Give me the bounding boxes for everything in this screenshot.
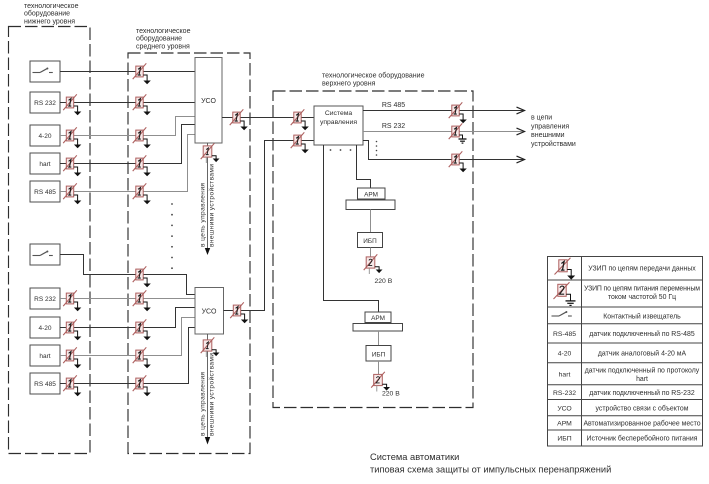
svg-text:устройствами: устройствами [531, 140, 576, 148]
legend symbol: contact detector [552, 311, 572, 316]
device box: control system (Система управления) [314, 106, 363, 145]
svg-text:в цепи: в цепи [531, 115, 552, 122]
svg-text:АРМ: АРМ [364, 191, 378, 198]
svg-text:hart: hart [39, 353, 50, 360]
svg-text:RS 232: RS 232 [382, 123, 405, 130]
wire: 4-20 B6 elbow up to USO2 [60, 308, 195, 328]
svg-text:датчик подключенный по протоко: датчик подключенный по протоколу [585, 366, 700, 374]
wire: USO1 output to control system input 1 [222, 117, 314, 119]
device box: sensor RS 232 (B1) [30, 92, 60, 113]
svg-text:управления: управления [531, 124, 569, 131]
svg-text:УЗИП по цепям питания переменн: УЗИП по цепям питания переменным [584, 285, 700, 292]
surge protector (УЗИП 1) at sensor output, row 5 group 2 [63, 375, 81, 396]
svg-text:RS 232: RS 232 [34, 100, 56, 107]
legend symbol: УЗИП type 2 [554, 282, 576, 305]
surge protector (УЗИП 1) below USO1 [201, 143, 220, 163]
svg-text:RS 485: RS 485 [382, 102, 405, 109]
surge protector (УЗИП 1) middle column, row 5 group 1 [133, 183, 151, 204]
svg-text:внешними устройствами: внешними устройствами [208, 353, 216, 436]
node: third line arrow head [517, 156, 525, 163]
wire: UPS1 to 220V surge protector [370, 248, 372, 258]
node: down arrow, external device circuit 2 [205, 437, 210, 445]
device box: contact detector S2 [30, 244, 60, 265]
node: RS485 arrow head [517, 107, 525, 114]
svg-text:УЗИП по цепям передачи данных: УЗИП по цепям передачи данных [588, 266, 696, 273]
device box: ARM2 base [353, 324, 403, 332]
wire: switch S2 elbow down to row level [60, 255, 195, 295]
svg-text:ИБП: ИБП [557, 436, 571, 443]
surge protector (УЗИП 1) after USO1 [230, 109, 248, 130]
wire: RS232 B1 row 2 segment [60, 102, 195, 104]
svg-text:220 В: 220 В [382, 391, 400, 398]
svg-text:типовая схема защиты от импуль: типовая схема защиты от импульсных перен… [370, 465, 611, 475]
svg-text:Автоматизированное рабочее мес: Автоматизированное рабочее место [583, 420, 700, 428]
svg-text:Контактный извещатель: Контактный извещатель [603, 312, 681, 320]
wire: RS 232 output line [363, 131, 524, 133]
surge protector (УЗИП 1) at sensor output, row 3 group 2 [63, 319, 81, 340]
wire: RS485 B4 row 5 segment with elbow up [60, 135, 195, 192]
legend symbol: УЗИП type 1 [555, 258, 576, 280]
surge protector (УЗИП 1, earth ground) on RS232 output [449, 123, 467, 143]
device box: UPS2 (ИБП) [366, 346, 391, 362]
wire: middle-level equipment dashed boundary [128, 53, 250, 454]
wire: control system to ARM1 [357, 145, 371, 188]
surge protector (УЗИП 1) at sensor output, row 4 group 1 [63, 155, 81, 176]
device box: UPS1 (ИБП) [358, 233, 383, 248]
surge protector (УЗИП 1) at sensor output, row 2 group 1 [63, 94, 81, 115]
device box: contact detector S1 [30, 61, 60, 82]
svg-text:RS-485: RS-485 [553, 331, 576, 338]
svg-text:hart: hart [559, 372, 571, 379]
wire: UPS2 to 220V surge protector [378, 361, 380, 375]
node: down arrow, external device circuit 1 [205, 248, 210, 255]
surge protector (УЗИП 2) on 220V supply of UPS1 [364, 254, 383, 274]
wire: upper-level equipment dashed boundary [273, 91, 473, 408]
wire: RS485 B8 elbow up to USO2 [60, 328, 195, 384]
svg-text:АРМ: АРМ [371, 315, 385, 322]
svg-text:АРМ: АРМ [557, 421, 572, 428]
svg-text:4-20: 4-20 [38, 133, 51, 140]
node: continuation dots between groups [171, 203, 173, 205]
surge protector (УЗИП 1) on third output [449, 151, 467, 172]
surge protector (УЗИП 1) below USO2 [201, 337, 220, 357]
surge protector (УЗИП 1) middle column, row 2 group 1 [133, 94, 151, 115]
node: dots below control system [330, 149, 332, 151]
wire: ARM1 to UPS1 [370, 210, 372, 233]
svg-text:технологическое: технологическое [136, 28, 191, 35]
wire: hart B3 row 4 segment with elbow up [60, 125, 195, 164]
device box: sensor hart (B3) [30, 153, 60, 174]
svg-text:внешними: внешними [531, 132, 565, 139]
wire: ARM2 to UPS2 [378, 331, 380, 346]
surge protector (УЗИП 1) after USO2 [230, 302, 248, 323]
device box: УСО U1 (object communication device) [195, 58, 222, 144]
svg-text:оборудование: оборудование [136, 35, 182, 43]
surge protector (УЗИП 1) at sensor output, row 5 group 1 [63, 183, 81, 204]
svg-text:датчик подключенный по RS-232: датчик подключенный по RS-232 [589, 389, 695, 397]
legend table frame [548, 257, 703, 447]
surge protector (УЗИП 1) at sensor output, row 4 group 2 [63, 347, 81, 368]
svg-text:технологическое: технологическое [24, 3, 79, 10]
device box: sensor hart (B7) [30, 345, 60, 366]
wire: USO2 output up to control system input 2 [224, 141, 315, 311]
svg-text:верхнего уровня: верхнего уровня [322, 81, 376, 88]
svg-text:УСО: УСО [557, 405, 571, 412]
device box: ARM1 base [346, 200, 395, 210]
device box: ARM1 (workstation) [358, 188, 386, 199]
svg-text:УСО: УСО [201, 98, 216, 105]
surge protector (УЗИП 1) middle column, row 1 group 1 [133, 63, 151, 84]
surge protector (УЗИП 1) middle column, row 3 group 2 [133, 319, 151, 340]
svg-text:УСО: УСО [202, 309, 217, 316]
svg-text:током частотой 50 Гц: током частотой 50 Гц [608, 293, 676, 301]
svg-text:RS 485: RS 485 [34, 189, 56, 196]
surge protector (УЗИП 1) middle column, row 3 group 1 [133, 127, 151, 148]
wire: switch S1 to USO1 (row 1) [60, 71, 195, 73]
surge protector (УЗИП 1) middle column, row 4 group 2 [133, 347, 151, 368]
wire: USO2 bottom output downward [207, 334, 209, 437]
surge protector (УЗИП 1) at sensor output, row 3 group 1 [63, 127, 81, 148]
svg-text:технологическое оборудование: технологическое оборудование [322, 71, 425, 79]
svg-text:hart: hart [636, 376, 648, 383]
svg-text:устройство связи с объектом: устройство связи с объектом [596, 404, 689, 412]
wire: RS 485 output line [363, 110, 524, 112]
wire: USO1 bottom output downward [207, 143, 209, 248]
surge protector (УЗИП 1) at sensor output, row 2 group 2 [63, 290, 81, 311]
svg-text:датчик подключенный по RS-485: датчик подключенный по RS-485 [589, 330, 695, 338]
svg-text:Система автоматики: Система автоматики [370, 452, 459, 462]
node: dots column right of control system [376, 141, 378, 143]
svg-text:в цепь управления: в цепь управления [200, 372, 207, 436]
svg-text:Система: Система [325, 110, 353, 117]
surge protector (УЗИП 1) at control system input 2 [291, 132, 309, 153]
svg-text:оборудование: оборудование [24, 10, 70, 18]
device box: ARM2 (workstation) [365, 312, 391, 323]
svg-text:ИБП: ИБП [372, 351, 386, 358]
svg-text:среднего уровня: среднего уровня [136, 43, 190, 50]
svg-text:RS 232: RS 232 [34, 296, 56, 303]
surge protector (УЗИП 1) middle column, row 2 group 2 [133, 290, 151, 311]
surge protector (УЗИП 1) middle column, row 4 group 1 [133, 155, 151, 176]
node: RS232 arrow head [517, 128, 525, 135]
surge protector (УЗИП 2) on 220V supply of UPS2 [371, 372, 390, 392]
device box: sensor RS 485 (B4) [30, 181, 60, 202]
device box: sensor RS 485 (B8) [30, 373, 60, 394]
wire: 4-20 B2 row 3 segment with elbow up [60, 117, 195, 136]
device box: sensor 4-20 (B2) [30, 125, 60, 146]
wire: control system to ARM2 (long drop) [324, 145, 379, 312]
svg-text:внешними устройствами: внешними устройствами [208, 164, 216, 247]
svg-text:4-20: 4-20 [558, 351, 572, 358]
wire: RS232 B5 to USO2 [60, 298, 195, 300]
device box: sensor RS 232 (B5) [30, 288, 60, 309]
wire: lower-level equipment dashed boundary [9, 27, 91, 454]
surge protector (УЗИП 1) on RS485 output [449, 102, 467, 123]
svg-text:hart: hart [39, 161, 50, 168]
svg-text:RS-232: RS-232 [553, 390, 576, 397]
svg-text:4-20: 4-20 [38, 325, 51, 332]
svg-text:нижнего уровня: нижнего уровня [24, 18, 75, 25]
svg-text:датчик аналоговый 4-20 мА: датчик аналоговый 4-20 мА [598, 350, 687, 358]
surge protector (УЗИП 1) at control system input 1 [291, 109, 309, 130]
device box: sensor 4-20 (B6) [30, 317, 60, 338]
wire: hart B7 elbow up to USO2 [60, 318, 195, 356]
surge protector (УЗИП 1) middle column, row 1 group 2 [133, 266, 151, 287]
svg-text:в цепь управления: в цепь управления [200, 183, 207, 247]
device box: УСО U2 (object communication device) [195, 288, 224, 335]
svg-text:220 В: 220 В [375, 278, 393, 285]
svg-text:управления: управления [320, 119, 357, 126]
svg-text:Источник бесперебойного питани: Источник бесперебойного питания [587, 435, 698, 443]
svg-text:ИБП: ИБП [363, 238, 377, 245]
wire: third output line with elbow [363, 141, 524, 160]
surge protector (УЗИП 1) middle column, row 5 group 2 [133, 375, 151, 396]
svg-text:RS 485: RS 485 [34, 381, 56, 388]
